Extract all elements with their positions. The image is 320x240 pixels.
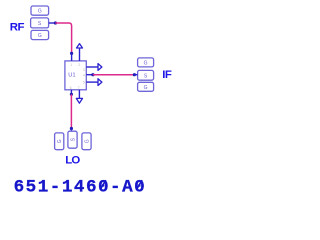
IF pad G1	[138, 58, 154, 67]
svg-text:U1: U1	[68, 72, 75, 78]
svg-text:G: G	[144, 60, 148, 66]
slash of zero in 1460	[100, 180, 106, 190]
wire U1 to IF (net)	[93, 74, 134, 76]
LO pad G1 (left)	[55, 133, 64, 150]
IF pad G2	[138, 82, 154, 91]
svg-text:G: G	[84, 139, 90, 143]
port arrow down	[76, 98, 82, 103]
svg-text:G: G	[57, 139, 63, 143]
RF S pin stub	[49, 22, 55, 24]
svg-text:4: 4	[83, 73, 85, 77]
svg-text:G: G	[38, 33, 42, 39]
wire RF to U1 pin (net)	[55, 23, 71, 52]
LO pad S (middle)	[68, 131, 77, 148]
U1 pin 5 right-bottom with port arrow	[86, 81, 98, 83]
slash of zero in A0	[136, 180, 142, 190]
U1 pin 3 right-top with port arrow	[86, 66, 98, 68]
svg-text:7: 7	[78, 86, 80, 90]
IF S pin stub	[134, 74, 137, 76]
RF pad G1	[31, 6, 49, 15]
port arrow right	[98, 64, 102, 71]
LO pad G2 (right)	[82, 133, 91, 150]
IF pad S	[138, 70, 154, 80]
U1 pin 4 right-middle	[86, 74, 92, 76]
junction dot at LO stub	[70, 127, 73, 130]
svg-text:G: G	[38, 9, 42, 15]
svg-text:6: 6	[70, 86, 72, 90]
U1 pin 2 top-right with port arrow	[79, 48, 81, 61]
svg-text:RF: RF	[10, 22, 25, 34]
port arrow right	[98, 79, 102, 86]
U1 pin 6 bottom-left	[70, 90, 72, 94]
port arrow up	[77, 44, 83, 48]
junction dot at U1 top pin	[70, 52, 73, 55]
svg-text:3: 3	[83, 68, 85, 72]
svg-text:5: 5	[83, 80, 85, 84]
op-amp U1 body	[65, 61, 86, 90]
svg-text:G: G	[144, 85, 148, 91]
svg-text:LO: LO	[65, 155, 80, 167]
wire U1 to LO (net)	[70, 94, 72, 128]
svg-text:2: 2	[78, 63, 80, 67]
LO S pin stub	[70, 129, 72, 132]
svg-text:IF: IF	[162, 69, 172, 81]
U1 pin 1 top-left	[71, 53, 73, 61]
U1 pin 7 bottom-right with port arrow	[78, 90, 80, 99]
svg-text:1: 1	[70, 63, 72, 67]
RF pad S	[31, 18, 49, 28]
junction dot bottom pin	[70, 93, 73, 96]
junction dot at pin 4	[91, 73, 94, 76]
junction dot at IF stub	[133, 73, 136, 76]
RF pad G2	[31, 30, 49, 39]
svg-text:651-1460-A0: 651-1460-A0	[14, 177, 147, 197]
junction dot RF	[54, 21, 57, 24]
